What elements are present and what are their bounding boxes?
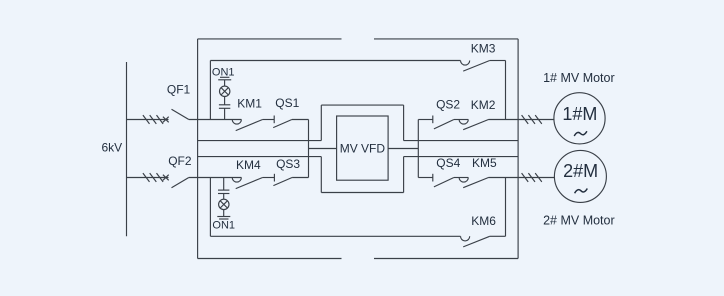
wire QS2 to KM2 <box>454 119 468 121</box>
wire channel left top <box>198 140 322 142</box>
contactor KM5 blade <box>463 178 488 188</box>
wire node to QS4 <box>418 177 433 179</box>
wire row1 into cabinet <box>189 119 242 121</box>
node VFD input vertical <box>308 120 310 178</box>
indicator lamp ON1 bottom cross <box>220 201 227 208</box>
contactor KM3 arc <box>461 61 470 66</box>
wire KM5 to motor 2 <box>489 177 555 179</box>
motor M1 circle <box>554 93 605 144</box>
VFD outer enclosure <box>321 105 403 192</box>
wire KM3 bypass line <box>210 60 460 62</box>
node VFD output vertical <box>417 120 419 178</box>
contactor KM5 arc <box>459 178 468 183</box>
svg-text:1#M: 1#M <box>562 104 597 124</box>
breaker QF1 three-phase slashes <box>143 115 163 124</box>
wire KM3 bypass drop right <box>505 61 507 120</box>
wire channel left bottom <box>198 156 322 158</box>
wire VFD input link <box>309 148 337 150</box>
wire QS3 to node <box>292 177 308 179</box>
breaker QF1 blade <box>172 109 189 119</box>
svg-text:KM6: KM6 <box>471 214 496 228</box>
cabinet outline big rectangle <box>198 39 518 259</box>
wire QF2 feeder from bus <box>127 177 169 179</box>
svg-text:QS2: QS2 <box>436 97 460 111</box>
svg-text:MV VFD: MV VFD <box>340 141 386 155</box>
svg-text:KM3: KM3 <box>471 41 496 55</box>
svg-text:QS1: QS1 <box>275 96 299 110</box>
breaker QF2 blade <box>172 178 189 188</box>
indicator ON1 top terminal plates <box>218 77 231 80</box>
wire KM4 to QS3 <box>263 177 275 179</box>
svg-text:2#M: 2#M <box>563 161 598 181</box>
indicator ON1 bottom link wire <box>223 194 225 200</box>
indicator ON1 bottom capacitor plates <box>218 190 229 193</box>
wire KM3 to drop <box>490 60 506 62</box>
svg-text:KM1: KM1 <box>237 97 262 111</box>
indicator lamp ON1 top cross <box>221 88 228 95</box>
svg-text:QS3: QS3 <box>276 157 300 171</box>
disconnector QS2 tick <box>432 116 434 124</box>
contactor KM6 blade <box>463 236 490 247</box>
svg-text:KM4: KM4 <box>236 158 261 172</box>
motor 1 tilde <box>574 131 587 136</box>
svg-text:KM5: KM5 <box>472 156 497 170</box>
wire row2 into cabinet <box>189 177 242 179</box>
svg-text:6kV: 6kV <box>102 141 123 155</box>
indicator ON1 top upper wire <box>224 80 226 86</box>
wire KM2 to motor 1 <box>489 119 555 121</box>
wire VFD output link <box>388 148 418 150</box>
svg-text:QS4: QS4 <box>436 156 460 170</box>
motor 2 tilde <box>575 189 588 194</box>
indicator ON1 top link wire <box>224 97 226 105</box>
contactor KM1 arc <box>232 120 241 125</box>
disconnector QS4 blade <box>434 178 454 187</box>
indicator lamp ON1 top circle <box>220 86 230 96</box>
wire node to QS2 <box>418 119 433 121</box>
disconnector QS1 tick <box>273 116 275 124</box>
wire QS1 to node <box>292 119 309 121</box>
node 6kV bus <box>126 62 128 236</box>
wire KM3 bypass riser left <box>209 61 211 120</box>
svg-text:QF2: QF2 <box>168 154 192 168</box>
wire QS4 to KM5 <box>454 177 468 179</box>
contactor KM1 blade <box>236 120 263 131</box>
contactor KM6 arc <box>461 236 470 241</box>
disconnector QS3 blade <box>273 178 292 186</box>
svg-text:1# MV Motor: 1# MV Motor <box>543 71 615 85</box>
indicator ON1 top drop wire <box>224 108 226 119</box>
disconnector QS1 blade <box>273 120 292 128</box>
breaker QF2 x mark <box>163 175 169 181</box>
wire channel right top <box>404 140 518 142</box>
svg-text:2# MV Motor: 2# MV Motor <box>543 214 615 228</box>
wire QF1 feeder from bus <box>127 119 169 121</box>
wire KM6 to riser <box>490 235 506 237</box>
indicator ON1 bottom lower wire <box>223 210 225 217</box>
contactor KM2 blade <box>463 120 488 130</box>
disconnector QS2 blade <box>434 120 454 129</box>
contactor KM2 arc <box>459 120 468 125</box>
contactor KM4 blade <box>236 178 263 189</box>
contactor KM3 blade <box>463 61 490 72</box>
contactor KM4 arc <box>232 178 241 183</box>
indicator ON1 top capacitor plates <box>219 105 230 109</box>
indicator ON1 bottom drop wire <box>223 178 225 191</box>
wire KM6 bypass riser right <box>505 178 507 237</box>
breaker QF1 x mark <box>163 117 169 123</box>
wire KM6 bypass line <box>210 235 460 237</box>
disconnector QS4 tick <box>432 174 434 182</box>
wire channel right bottom <box>404 156 518 158</box>
svg-text:KM2: KM2 <box>471 98 496 112</box>
indicator ON1 bottom terminal plates <box>217 217 230 220</box>
svg-text:ON1: ON1 <box>212 66 235 78</box>
breaker QF2 three-phase slashes <box>143 173 163 182</box>
indicator lamp ON1 bottom circle <box>219 199 229 209</box>
disconnector QS3 tick <box>273 174 275 182</box>
VFD box U1 <box>337 116 389 180</box>
wire KM6 bypass riser left <box>209 178 211 237</box>
motor M2 circle <box>554 150 606 202</box>
svg-text:QF1: QF1 <box>167 82 191 96</box>
motor 1 three-phase slashes <box>522 115 542 124</box>
wire KM1 to QS1 <box>263 119 275 121</box>
svg-text:ON1: ON1 <box>212 220 235 232</box>
motor 2 three-phase slashes <box>522 173 542 182</box>
